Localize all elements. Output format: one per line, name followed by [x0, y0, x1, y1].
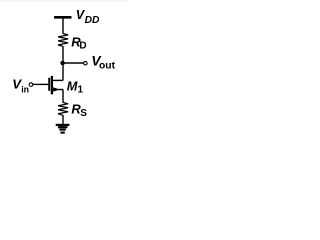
channel bar	[51, 76, 53, 95]
node Vout open terminal	[84, 61, 88, 64]
drain lead	[53, 79, 64, 81]
ground	[56, 125, 70, 133]
node Vin open terminal	[29, 83, 33, 87]
wire node to Vout terminal	[63, 62, 84, 64]
label RS	[71, 102, 87, 120]
svg-text:D: D	[79, 41, 86, 52]
label Vout	[91, 54, 115, 72]
wire RS bottom to ground	[62, 115, 64, 124]
node drain junction dot	[60, 61, 65, 66]
background	[0, 0, 127, 142]
svg-text:M: M	[67, 79, 78, 94]
power VDD bar	[54, 16, 71, 19]
svg-text:S: S	[80, 108, 87, 119]
wire RD bottom to drain node	[62, 46, 64, 80]
wire VDD bar to RD top	[62, 17, 64, 34]
gate bar	[48, 78, 50, 91]
wire Vin terminal to gate	[33, 83, 48, 85]
resistor RS	[58, 102, 68, 115]
label M1	[67, 79, 84, 96]
label RD	[71, 35, 86, 52]
resistor RD	[58, 34, 68, 47]
source lead	[53, 89, 64, 91]
transistor M1	[49, 76, 63, 95]
label VDD	[76, 8, 100, 26]
svg-text:out: out	[99, 61, 116, 72]
wire source to RS top	[62, 90, 64, 103]
source arrow	[53, 87, 59, 92]
svg-text:DD: DD	[85, 15, 100, 26]
svg-text:1: 1	[78, 85, 84, 96]
label Vin	[12, 76, 29, 94]
svg-text:in: in	[21, 84, 29, 94]
